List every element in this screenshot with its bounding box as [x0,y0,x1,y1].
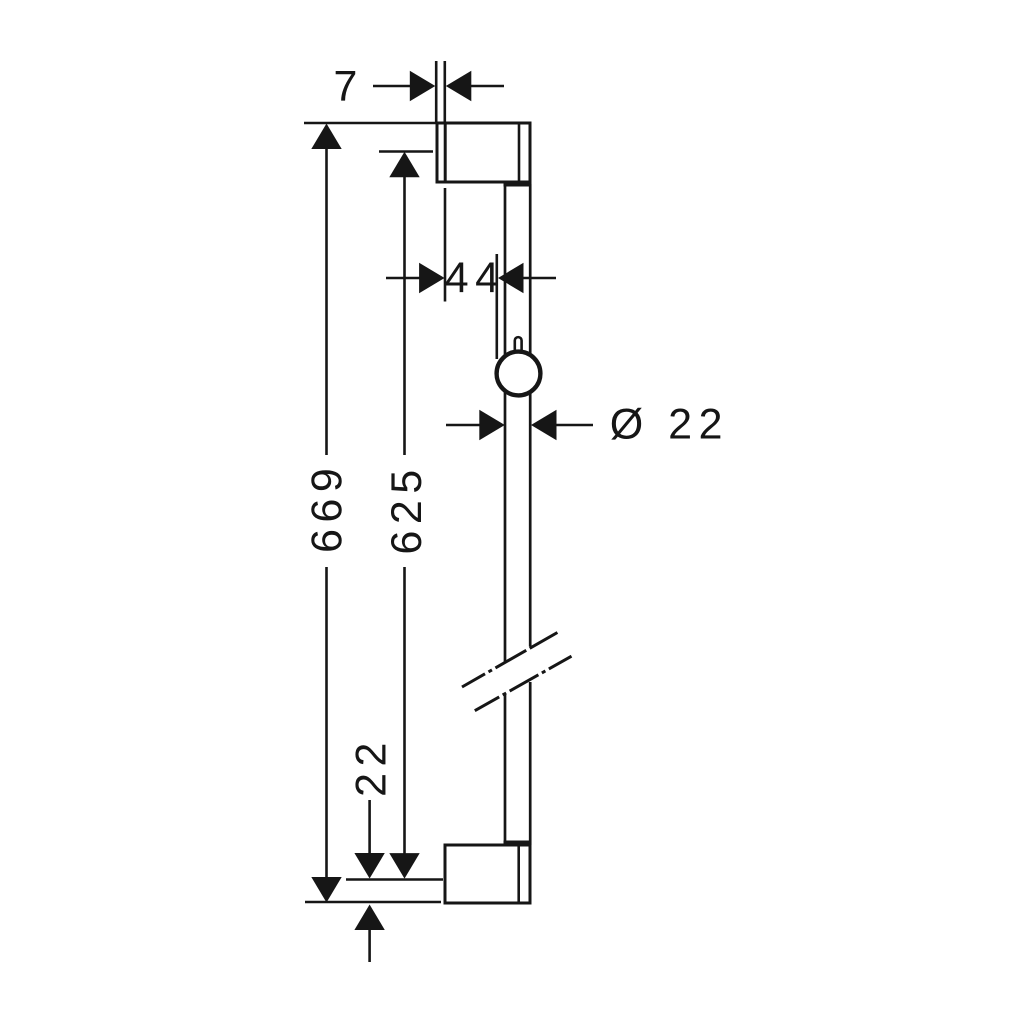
dim line diameter 22 left tail [446,424,481,427]
arrow 44 right (points left) [498,263,524,293]
slider knob circle [497,352,541,396]
dim text 44 [446,263,498,293]
bar left edge lower segment [504,695,507,845]
dim text 7 [336,71,356,101]
dim line 22 lower [368,929,371,962]
wall holder top: bar junction [504,181,532,187]
dim line 669 upper segment [325,148,328,455]
dim line 44 left tail [386,277,421,280]
arrow 22 lower (points up) [354,905,384,931]
dim text diameter 22 [611,408,720,440]
dim line 669 lower segment [325,567,328,878]
bar right edge lower segment [529,682,532,845]
bar right edge upper segment [529,184,532,647]
arrow 7 right (points left) [446,71,472,101]
extension line bottom hole [346,878,443,881]
dim line 625 lower segment [403,567,406,854]
dim text 669 (rotated) [311,470,341,551]
dim line 44 right tail [523,277,556,280]
extension line slider face (44 right) [495,254,498,359]
arrow 669 top (points up) [311,124,341,150]
dim line diameter 22 right tail [556,424,593,427]
arrow 669 bottom (points down) [311,877,341,903]
dim line 22 upper [368,800,371,854]
break mark lower dash-dot line [475,656,572,711]
dim line 7 left tail [373,85,412,88]
dim text 625 (rotated) [391,472,421,553]
extension line top hole (625 top) [379,150,433,153]
wall holder top: outer body [437,123,530,182]
arrow 7 left (points right) [410,71,436,101]
extension line top overall (669 top) [304,122,437,125]
extension line wall rear top [435,61,438,123]
arrow 22 upper (points down) [354,853,384,879]
wall holder bottom: outer body [445,845,530,903]
arrow 625 bottom (points down) [389,853,419,879]
arrow diameter right (points left) [531,410,557,440]
dim text 22 bottom (rotated) [355,745,385,795]
wall holder top: wall plate front line [444,123,447,182]
wall holder top: inner clamp line [518,123,521,182]
wall holder bottom: bar junction [504,841,532,847]
arrow diameter left (points right) [479,410,505,440]
extension line wall plate front top [443,61,446,123]
bar left edge upper segment [504,184,507,662]
extension line wall plate front (44 left) [444,188,447,302]
dim line 625 upper segment [403,176,406,455]
slider knob notch [515,337,522,352]
arrow 44 left (points right) [419,263,445,293]
wall holder bottom: inner clamp line [517,845,520,903]
arrow 625 top (points up) [389,152,419,178]
dim line 7 right tail [471,85,504,88]
extension line bottom overall [305,901,441,904]
break mark upper dash-dot line [462,633,557,688]
